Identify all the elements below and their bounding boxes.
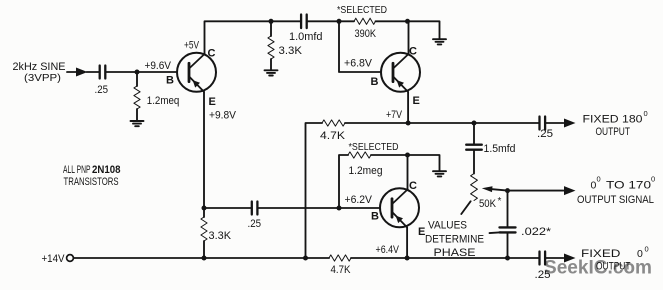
svg-text:(3VPP): (3VPP) [24,72,61,84]
svg-text:0: 0 [651,175,655,184]
svg-text:.25: .25 [95,84,109,96]
svg-text:1.0mfd: 1.0mfd [289,31,323,43]
svg-text:ALL PNP: ALL PNP [63,164,91,176]
svg-text:VALUES: VALUES [428,220,467,232]
svg-text:1.2meg: 1.2meg [349,165,383,177]
svg-text:4.7K: 4.7K [331,264,352,276]
svg-text:0: 0 [597,175,601,184]
svg-text:2N108: 2N108 [92,164,121,176]
svg-text:TRANSISTORS: TRANSISTORS [64,176,119,188]
svg-text:FIXED 180: FIXED 180 [583,114,643,126]
svg-text:+9.8V: +9.8V [209,110,237,122]
svg-text:+6.4V: +6.4V [376,244,400,256]
svg-text:3.3K: 3.3K [279,45,303,57]
svg-text:OUTPUT: OUTPUT [596,261,631,273]
svg-text:B: B [166,75,174,87]
svg-text:0: 0 [645,245,649,254]
svg-text:390K: 390K [355,28,377,40]
svg-text:C: C [409,46,417,58]
svg-text:B: B [371,211,379,223]
svg-text:50K: 50K [479,198,497,210]
svg-text:+9.6V: +9.6V [145,60,172,72]
svg-text:1.2meq: 1.2meq [147,95,180,107]
svg-text:E: E [209,96,216,108]
svg-text:+5V: +5V [184,40,199,52]
svg-text:*: * [498,196,502,207]
svg-text:0: 0 [637,248,643,260]
svg-text:.022*: .022* [521,226,552,238]
svg-text:DETERMINE: DETERMINE [425,234,484,246]
svg-text:FIXED: FIXED [581,248,621,260]
svg-text:C: C [208,48,216,60]
svg-text:+7V: +7V [386,109,403,121]
svg-text:OUTPUT SIGNAL: OUTPUT SIGNAL [577,194,654,206]
svg-text:.25: .25 [535,269,551,281]
svg-text:E: E [413,95,420,107]
svg-text:1.5mfd: 1.5mfd [484,143,516,155]
svg-text:OUTPUT: OUTPUT [596,126,631,138]
svg-text:C: C [409,180,417,192]
svg-text:.25: .25 [248,218,262,230]
svg-text:*SELECTED: *SELECTED [349,142,399,153]
svg-text:B: B [371,76,379,88]
svg-text:3.3K: 3.3K [209,230,232,242]
svg-text:PHASE: PHASE [434,247,476,259]
svg-text:*SELECTED: *SELECTED [337,5,387,16]
svg-text:4.7K: 4.7K [320,130,346,142]
svg-text:+6.2V: +6.2V [345,194,373,206]
svg-text:+14V: +14V [42,253,66,265]
svg-text:0: 0 [644,109,648,118]
svg-text:+6.8V: +6.8V [344,58,373,70]
svg-text:TO 170: TO 170 [606,180,651,192]
svg-text:.25: .25 [537,128,553,140]
